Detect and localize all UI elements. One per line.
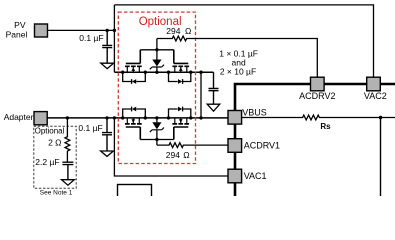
wire: VBUS to Rs to right edge	[242, 115, 395, 120]
diode Z1 zener (top pair gate-source)	[150, 50, 164, 72]
svg-text:2.2 µF: 2.2 µF	[35, 157, 59, 167]
label VBUS cap value	[219, 49, 258, 77]
diode D4 body (bottom-right)	[169, 107, 191, 118]
ground (VBUS cap)	[207, 104, 220, 111]
wire: PV panel to corner vertical	[48, 5, 115, 72]
resistor R1 294 ohm (top gate)	[157, 36, 317, 77]
ground (PV cap)	[101, 63, 114, 68]
wire: top gate bracket	[140, 39, 174, 52]
svg-text:VBUS: VBUS	[242, 107, 267, 117]
capacitor C3 2.2uF	[62, 162, 73, 180]
pin VAC2	[367, 77, 381, 91]
diode D2 body (top-right)	[169, 72, 191, 84]
ground (2.2uF cap)	[62, 180, 75, 186]
optional box (gray dashed, adapter RC)	[34, 126, 76, 188]
wire: Rs junction down	[380, 118, 382, 197]
capacitor C4 0.1uF (adapter side)	[102, 118, 112, 151]
IC U1 outline (charger IC, top and left edges)	[235, 84, 395, 196]
svg-text:ACDRV1: ACDRV1	[244, 140, 280, 150]
svg-text:Optional: Optional	[35, 127, 65, 136]
capacitor C2 VBUS (1x0.1uF and 2x10uF)	[209, 72, 219, 104]
resistor R3 2 ohm	[65, 118, 70, 162]
svg-text:0.1 µF: 0.1 µF	[78, 123, 102, 133]
svg-text:See Note 1: See Note 1	[40, 190, 73, 196]
wire: VAC1 sense	[114, 118, 228, 176]
svg-text:2 × 10 µF: 2 × 10 µF	[220, 67, 256, 77]
diode D1 body (top-left)	[123, 72, 146, 84]
svg-text:2 Ω: 2 Ω	[48, 138, 61, 148]
svg-text:ACDRV2: ACDRV2	[299, 91, 335, 101]
note box (bottom, clipped)	[118, 185, 152, 198]
svg-text:0.1 µF: 0.1 µF	[79, 33, 103, 43]
optional box (red dashed)	[118, 12, 195, 163]
ground (adapter cap)	[101, 151, 114, 156]
wire: bottom adapter rail to VBUS	[47, 117, 228, 119]
svg-text:294: 294	[166, 26, 180, 36]
diode D3 body (bottom-left)	[123, 107, 146, 118]
svg-text:Ω: Ω	[185, 26, 191, 36]
svg-text:Rs: Rs	[320, 122, 331, 131]
resistor R2 294 ohm (bottom gate)	[157, 143, 228, 148]
node: PV wire corner junction	[113, 29, 116, 32]
diode Z2 zener (bottom pair gate-source)	[150, 118, 164, 140]
transistor Q3 (bottom-left MOSFET)	[125, 118, 142, 140]
label PV Panel	[6, 20, 28, 39]
svg-text:Ω: Ω	[183, 150, 189, 160]
transistor Q1 (top-left MOSFET)	[125, 50, 142, 72]
transistor Q2 (top-right MOSFET)	[172, 50, 189, 72]
pin PV Panel terminal	[35, 24, 48, 37]
svg-text:Panel: Panel	[6, 29, 28, 39]
pin VBUS	[228, 111, 242, 125]
pin Adapter terminal	[34, 112, 47, 125]
wire: top source rail	[114, 71, 213, 73]
svg-text:VAC1: VAC1	[244, 171, 267, 181]
svg-text:294: 294	[166, 150, 180, 160]
wire: bottom gate bracket	[140, 138, 174, 145]
wire: top net from PV node to VAC2	[114, 5, 373, 77]
svg-text:Adapter: Adapter	[4, 112, 34, 122]
svg-text:VAC2: VAC2	[364, 91, 387, 101]
pin ACDRV2	[311, 77, 325, 91]
wire: rail interconnect vertical	[200, 72, 202, 118]
node: bottom rail junction dots	[66, 116, 203, 119]
pin VAC1	[228, 169, 242, 183]
transistor Q4 (bottom-right MOSFET)	[172, 118, 189, 140]
node: junction PV cap	[106, 29, 109, 32]
pin ACDRV1	[228, 139, 242, 153]
capacitor C1 0.1uF (PV side)	[102, 30, 112, 63]
node: top rail junction dots	[121, 71, 203, 74]
node: Rs output junction	[379, 116, 383, 120]
